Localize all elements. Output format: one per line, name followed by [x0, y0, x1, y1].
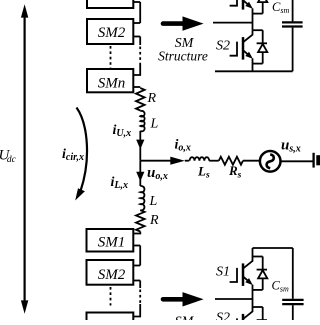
bottom-SM switch S2 collector-diode top wire: [253, 306, 263, 308]
lower arm submodule SMn box (cut off at bottom): [87, 313, 134, 325]
top-SM switch S1 emitter wire: [252, 8, 254, 13]
capacitor branch wire lower (top SM): [292, 28, 294, 72]
bottom-SM switch S1 collector-diode top wire: [253, 256, 263, 258]
capacitor branch wire upper (top SM): [292, 0, 294, 21]
svg-text:R: R: [149, 213, 159, 228]
svg-text:SM2: SM2: [98, 25, 126, 41]
dotted wire SM2 to SMn (lower right bus): [139, 290, 141, 305]
wire SM1 to SM2 (lower arm): [139, 246, 141, 266]
wire Ls to Rs: [209, 160, 219, 162]
svg-text:S2: S2: [216, 311, 230, 321]
wire SM2 down (solid): [139, 37, 141, 46]
upper arm current arrowhead i_U,x: [136, 140, 144, 150]
top-SM switch S2 freewheeling diode: [257, 30, 268, 63]
grid inductor Ls: [190, 157, 210, 160]
bottom-SM switch S1 emitter-diode join wire: [253, 289, 263, 291]
bottom-SM switch S1 emitter arrow: [243, 277, 253, 285]
wire R into SM1: [133, 232, 140, 234]
wire Rs to source: [243, 160, 260, 162]
lower arm resistor R: [136, 210, 145, 231]
wire SM1 to SM2: [139, 2, 141, 23]
wire SM2 down solid (lower arm): [139, 281, 141, 289]
wire rail to S1 (bottom SM): [252, 248, 254, 257]
bottom rail (top SM): [215, 70, 293, 72]
bottom-SM switch S2 IGBT body bar: [242, 314, 245, 325]
top-SM switch S2 emitter-diode join wire: [253, 63, 263, 65]
midpoint output wire (bottom SM): [215, 298, 253, 300]
svg-text:L: L: [150, 117, 159, 132]
SM2 bottom terminal stub: [133, 36, 140, 38]
top-SM switch S2 collector-diode top wire: [253, 29, 263, 31]
top-SM switch S2 emitter wire: [252, 58, 254, 63]
top-SM switch S1 emitter-diode join wire: [253, 13, 263, 15]
svg-text:L: L: [149, 194, 158, 209]
top-SM switch S1 gate lead: [230, 0, 237, 6]
upper arm submodule SM1 box (cut off at top): [87, 0, 133, 8]
upper arm resistor R: [136, 88, 145, 111]
wire source to ground: [281, 160, 314, 162]
bottom-SM switch S1 collector: [243, 257, 252, 269]
svg-text:SM: SM: [175, 315, 195, 321]
top-SM switch S2 emitter arrow: [243, 50, 253, 58]
capacitor C_sm (bottom SM): [282, 300, 303, 304]
lower arm inductor L: [140, 186, 144, 210]
svg-text:Structure: Structure: [158, 49, 208, 64]
lower arm current arrowhead: [136, 172, 144, 182]
SM1 bottom stub (lower arm): [133, 245, 140, 247]
SM2 top terminal stub: [133, 22, 140, 24]
SM structure pointer arrow (bottom): [163, 292, 204, 306]
output current arrowhead i_o,x: [170, 157, 185, 165]
svg-text:S1: S1: [216, 265, 230, 280]
SM structure pointer arrow (top): [163, 16, 204, 30]
SMn bottom terminal stub: [133, 86, 140, 88]
label SM Structure: [158, 36, 208, 64]
lower arm submodule SM1 box: [87, 229, 134, 252]
svg-text:S2: S2: [216, 39, 230, 54]
capacitor C_sm (top SM): [282, 22, 303, 26]
SM2 top stub (lower arm): [133, 265, 140, 267]
bottom-SM switch S1 emitter wire: [252, 285, 254, 290]
capacitor branch wire upper (bottom SM): [292, 248, 294, 299]
top-SM switch S1 IGBT body bar: [242, 0, 245, 10]
circulating current arrow i_cir,x: [75, 108, 87, 201]
wire arrow to Ls: [185, 160, 189, 162]
bottom-SM switch S2 freewheeling diode: [257, 307, 268, 325]
bottom-SM switch S1 freewheeling diode: [257, 257, 268, 290]
bottom-SM switch S2 collector: [243, 307, 252, 319]
SM1 bottom terminal stub: [133, 1, 140, 3]
top-SM switch S1 freewheeling diode: [257, 0, 268, 14]
Udc dimension arrow (double-headed): [21, 4, 28, 314]
ground symbol: [314, 153, 320, 168]
top-SM switch S2 IGBT body bar: [242, 37, 245, 60]
svg-text:R: R: [147, 91, 157, 106]
AC voltage source u_s,x: [260, 151, 281, 172]
wire S2 emitter to bottom rail: [252, 64, 254, 72]
wire node down: [139, 161, 141, 186]
svg-text:SM2: SM2: [98, 267, 126, 283]
midpoint output wire (top SM): [213, 22, 253, 24]
top-SM switch S2 gate lead: [230, 42, 237, 56]
bottom-SM switch S2 gate lead: [230, 318, 237, 325]
upper arm submodule SM2 box: [87, 19, 133, 44]
node u_o,x junction wire: [140, 160, 171, 162]
top-SM switch S1 emitter arrow: [243, 0, 253, 8]
bottom-SM switch S1 IGBT body bar: [242, 263, 245, 286]
wire L to node: [139, 131, 141, 161]
upper arm inductor L: [140, 111, 144, 131]
dotted ellipsis between SM2 and SMn: [110, 46, 112, 68]
top rail (bottom SM): [253, 247, 293, 249]
top-SM switch S2 collector: [243, 30, 252, 42]
SM2 bottom stub (lower arm): [133, 280, 140, 282]
wire into lower SMn: [133, 304, 140, 317]
wire into SMn (solid): [133, 64, 140, 75]
lower arm submodule SM2 box: [87, 260, 134, 285]
wire S1 emitter to midpoint (bottom SM): [252, 290, 254, 307]
svg-text:SMn: SMn: [98, 76, 126, 92]
dotted ellipsis between lower SM2 and SMn: [110, 287, 112, 306]
bottom-SM switch S1 gate lead: [230, 268, 237, 282]
grid resistor Rs: [219, 157, 243, 165]
capacitor branch wire lower (bottom SM): [292, 305, 294, 320]
upper arm submodule SMn box: [87, 69, 133, 92]
dotted wire SM2 to SMn (right bus): [139, 47, 141, 65]
svg-text:SM1: SM1: [98, 235, 126, 251]
wire S1 emitter to midpoint: [252, 14, 254, 31]
